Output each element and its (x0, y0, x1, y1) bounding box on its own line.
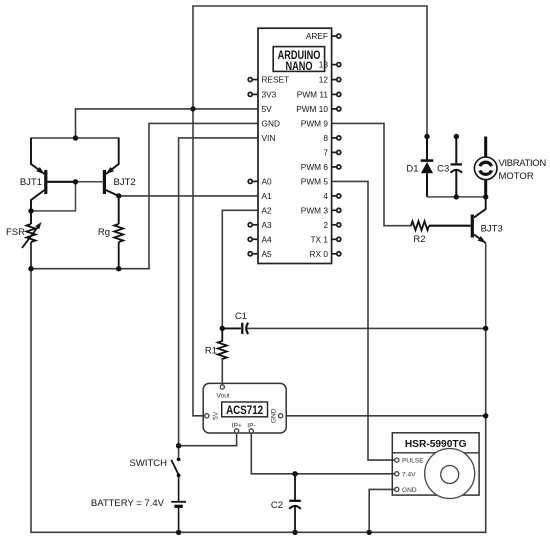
vibration motor M1 (474, 137, 497, 197)
svg-text:BATTERY = 7.4V: BATTERY = 7.4V (91, 498, 165, 509)
svg-text:NANO: NANO (285, 60, 312, 73)
svg-text:C1: C1 (235, 311, 247, 322)
battery BT1 (171, 502, 186, 533)
svg-text:R1: R1 (205, 346, 217, 357)
svg-text:A0: A0 (262, 176, 273, 186)
wire BJT3 emitter down to ground bus (485, 328, 487, 532)
svg-text:PULSE: PULSE (402, 458, 424, 465)
svg-text:HSR-5990TG: HSR-5990TG (405, 439, 467, 450)
svg-text:C3: C3 (437, 163, 449, 174)
wire A2 to R1/C1 node (222, 210, 258, 328)
wire mirror bottom rail (31, 268, 149, 270)
svg-text:C2: C2 (271, 500, 283, 511)
svg-text:A1: A1 (262, 191, 273, 201)
wire mirror emitter rail (31, 137, 119, 139)
wire A1 to BJT2 collector (119, 195, 258, 197)
arduino right pin stubs (332, 34, 341, 256)
svg-text:12: 12 (319, 75, 329, 85)
wire top 5V rail (193, 6, 427, 137)
wire R1 to ACS712 Vout (221, 359, 223, 385)
svg-text:A4: A4 (262, 234, 273, 244)
svg-text:FSR: FSR (6, 227, 25, 238)
svg-text:R2: R2 (413, 234, 425, 245)
resistor R1 (218, 328, 227, 359)
svg-text:PWM 9: PWM 9 (301, 118, 329, 128)
svg-text:2: 2 (323, 220, 328, 230)
wire C1 to BJT3 emitter line (247, 327, 486, 329)
svg-text:5V: 5V (262, 104, 273, 114)
diode D1 (421, 137, 434, 197)
arduino U1 box (258, 28, 332, 263)
svg-text:Vout: Vout (217, 392, 230, 399)
svg-text:GND: GND (402, 487, 417, 494)
svg-text:VIBRATION: VIBRATION (499, 158, 547, 169)
svg-text:RESET: RESET (262, 75, 290, 85)
capacitor C3 (451, 137, 462, 197)
servo HSR-5990TG U3 (392, 433, 479, 499)
wire 5V pin to mirror (76, 109, 259, 138)
svg-text:PWM 3: PWM 3 (301, 205, 329, 215)
svg-text:PWM 11: PWM 11 (297, 89, 329, 99)
svg-text:SWITCH: SWITCH (130, 458, 168, 469)
wire ACS712 IP- to servo 7.4V (251, 433, 394, 474)
svg-text:8: 8 (323, 133, 328, 143)
svg-text:AREF: AREF (306, 31, 328, 41)
svg-text:IP+: IP+ (232, 422, 242, 429)
svg-text:D1: D1 (406, 163, 418, 174)
wire BJT1 base to collector tie (31, 182, 76, 211)
svg-text:Rg: Rg (98, 227, 110, 238)
wire ACS712 IP+ to switch node (179, 433, 237, 446)
wire PWM5 to servo PULSE (331, 181, 395, 460)
svg-text:BJT3: BJT3 (481, 224, 503, 235)
svg-text:BJT1: BJT1 (20, 177, 42, 188)
wire GND pin down-left (149, 123, 258, 268)
svg-text:A3: A3 (262, 220, 273, 230)
svg-text:PWM 10: PWM 10 (296, 104, 328, 114)
resistor Rg (114, 224, 123, 269)
wire 5V down to ACS712 (193, 109, 205, 416)
arduino pin labels right (296, 31, 328, 259)
svg-text:5V: 5V (213, 411, 220, 420)
svg-text:PWM 6: PWM 6 (301, 162, 329, 172)
wire servo GND to ground bus (369, 489, 394, 532)
wire left ground bus (31, 269, 486, 533)
svg-text:BJT2: BJT2 (114, 177, 136, 188)
resistor FSR (22, 222, 42, 269)
switch S1 (171, 457, 180, 501)
svg-text:PWM 5: PWM 5 (301, 176, 329, 186)
svg-text:RX 0: RX 0 (310, 249, 329, 259)
svg-text:GND: GND (262, 118, 280, 128)
transistor BJT3 (429, 197, 486, 329)
ACS712 module U2 (203, 383, 286, 433)
svg-text:ACS712: ACS712 (226, 404, 263, 417)
arduino pin labels left (262, 75, 290, 259)
capacitor C1 (222, 323, 248, 334)
resistor R2 (411, 221, 429, 230)
wire ACS712 GND to right bus (287, 415, 486, 417)
svg-text:GND: GND (271, 408, 278, 423)
wire PWM9 to R2 (331, 123, 411, 225)
svg-text:MOTOR: MOTOR (499, 171, 534, 182)
svg-text:A2: A2 (262, 205, 273, 215)
motor top rail (427, 196, 486, 198)
wire VIN to switch (179, 138, 258, 457)
svg-text:4: 4 (323, 191, 328, 201)
svg-text:7: 7 (323, 147, 328, 157)
svg-text:IP-: IP- (247, 422, 255, 429)
svg-text:TX 1: TX 1 (310, 234, 328, 244)
svg-text:7.4V: 7.4V (402, 471, 416, 478)
transistor BJT2 (76, 138, 119, 224)
transistor BJT1 (31, 138, 76, 224)
capacitor C2 (289, 474, 301, 533)
arduino left pin stubs (248, 78, 258, 256)
svg-text:A5: A5 (262, 249, 273, 259)
svg-text:VIN: VIN (262, 133, 276, 143)
svg-text:13: 13 (319, 60, 329, 70)
svg-text:3V3: 3V3 (262, 89, 277, 99)
